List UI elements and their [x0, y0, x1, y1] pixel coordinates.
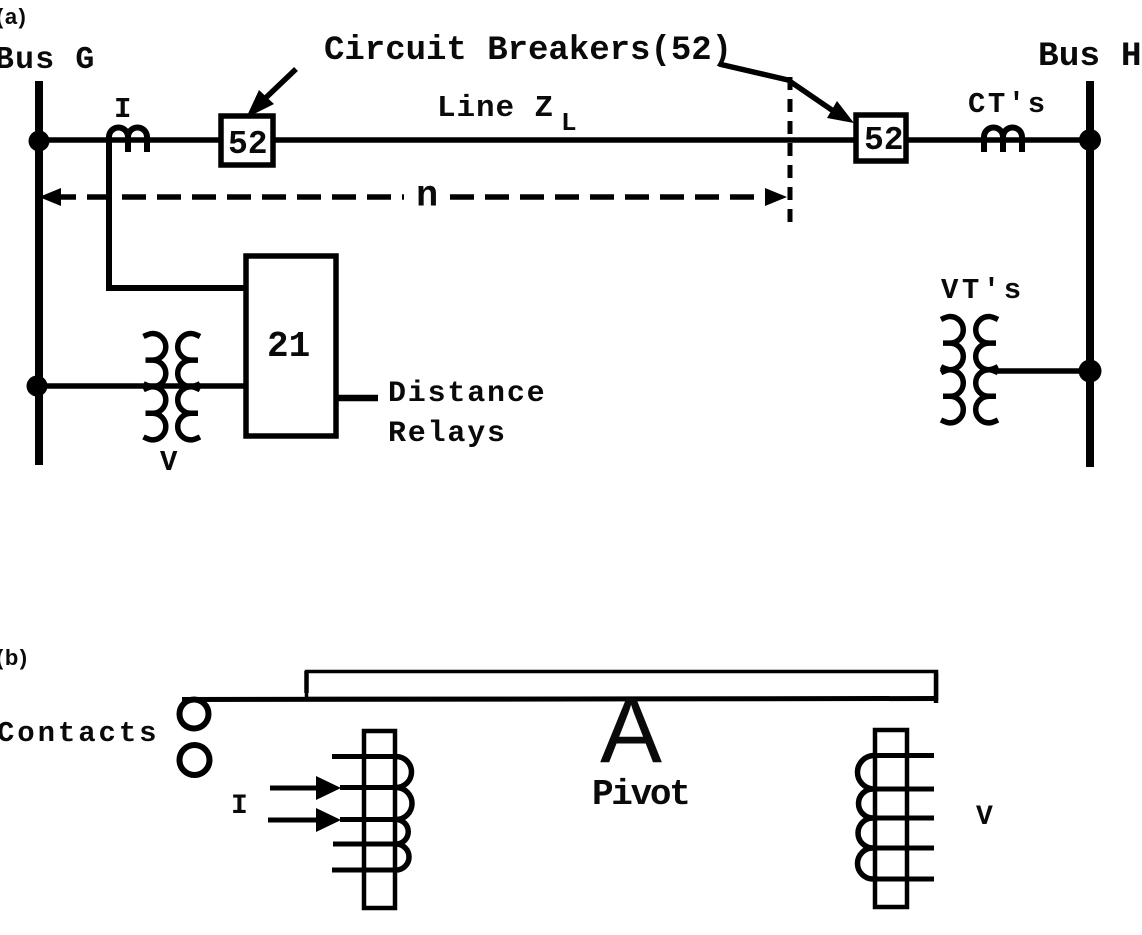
svg-text:V: V [976, 802, 993, 833]
bus H (right vertical bus bar) [1086, 81, 1094, 467]
arrowhead right of n-span [765, 188, 787, 206]
wire: right VT to Bus H [996, 368, 1090, 374]
VT right winding left [941, 317, 963, 423]
dashed span line n with arrowheads [52, 194, 404, 200]
current coil turn wires [332, 754, 398, 759]
stub wire from relay box right [336, 395, 378, 402]
balance beam rectangle [307, 672, 937, 699]
contact circle bottom [180, 745, 210, 775]
arrow from label to left breaker [246, 69, 296, 118]
svg-text:I: I [114, 93, 131, 126]
node: junction on Bus H at VT wire [1079, 360, 1102, 383]
arrowhead left of n-span [39, 188, 61, 206]
node: junction on Bus G at line [29, 131, 50, 152]
current coil core (left electromagnet) [364, 731, 395, 908]
lever line from contacts along beam bottom [182, 699, 937, 700]
wire: main line Bus G to breaker 1 [39, 137, 221, 143]
svg-text:Relays: Relays [388, 417, 507, 451]
svg-text:21: 21 [267, 326, 310, 367]
svg-text:Pivot: Pivot [592, 774, 689, 815]
svg-text:52: 52 [864, 122, 904, 159]
dashed vertical boundary line at n [788, 77, 793, 228]
wire: tap from CT down to relay [109, 141, 246, 288]
VT right winding right [976, 317, 998, 423]
VT left (voltage transformer V) winding left [144, 334, 166, 440]
wire: breaker 2 to Bus H [906, 137, 1090, 143]
wire: breaker 1 to breaker 2 (line ZL) [273, 137, 856, 143]
svg-text:Bus G: Bus G [0, 43, 96, 78]
svg-text:(a): (a) [0, 4, 27, 29]
contact circle top [180, 700, 209, 729]
beam right end cap [934, 673, 939, 703]
voltage coil left-side loops [857, 756, 873, 880]
distance relay box 21 [246, 256, 336, 436]
svg-text:(b): (b) [0, 645, 29, 670]
svg-text:VT's: VT's [941, 274, 1025, 307]
svg-text:Distance: Distance [388, 377, 546, 411]
voltage coil turn wires [872, 753, 934, 758]
current coil right-side loops [396, 757, 412, 871]
VT left winding right [178, 334, 200, 440]
bus G (left vertical bus bar) [35, 81, 43, 465]
arrow 1 into current coil [270, 776, 341, 800]
svg-text:Contacts: Contacts [0, 717, 159, 750]
svg-text:A: A [600, 678, 662, 782]
svg-text:Circuit Breakers(52): Circuit Breakers(52) [324, 32, 732, 70]
beam left end cap [304, 671, 309, 693]
svg-text:I: I [231, 791, 248, 822]
svg-text:52: 52 [228, 126, 268, 163]
node: junction on Bus G at VT [27, 376, 48, 397]
node: junction on Bus H at line [1079, 129, 1101, 151]
svg-text:CT's: CT's [968, 88, 1048, 121]
svg-text:Bus H: Bus H [1038, 37, 1142, 76]
svg-text:n: n [416, 176, 438, 218]
circuit breaker 52 (right) [856, 115, 906, 161]
CT left (current transformer, label I) [109, 128, 147, 155]
svg-text:Line Z: Line Z [437, 91, 554, 126]
svg-text:V: V [160, 446, 178, 479]
CT right (current transformers, label CT's) [984, 128, 1022, 153]
arrow from label to right breaker [719, 64, 854, 123]
arrow 2 into current coil [268, 808, 341, 832]
voltage coil core (right electromagnet) [875, 730, 907, 907]
wire: Bus G node through VT to relay box [37, 383, 246, 389]
svg-text:L: L [561, 108, 577, 138]
circuit breaker 52 (left) [221, 116, 273, 165]
